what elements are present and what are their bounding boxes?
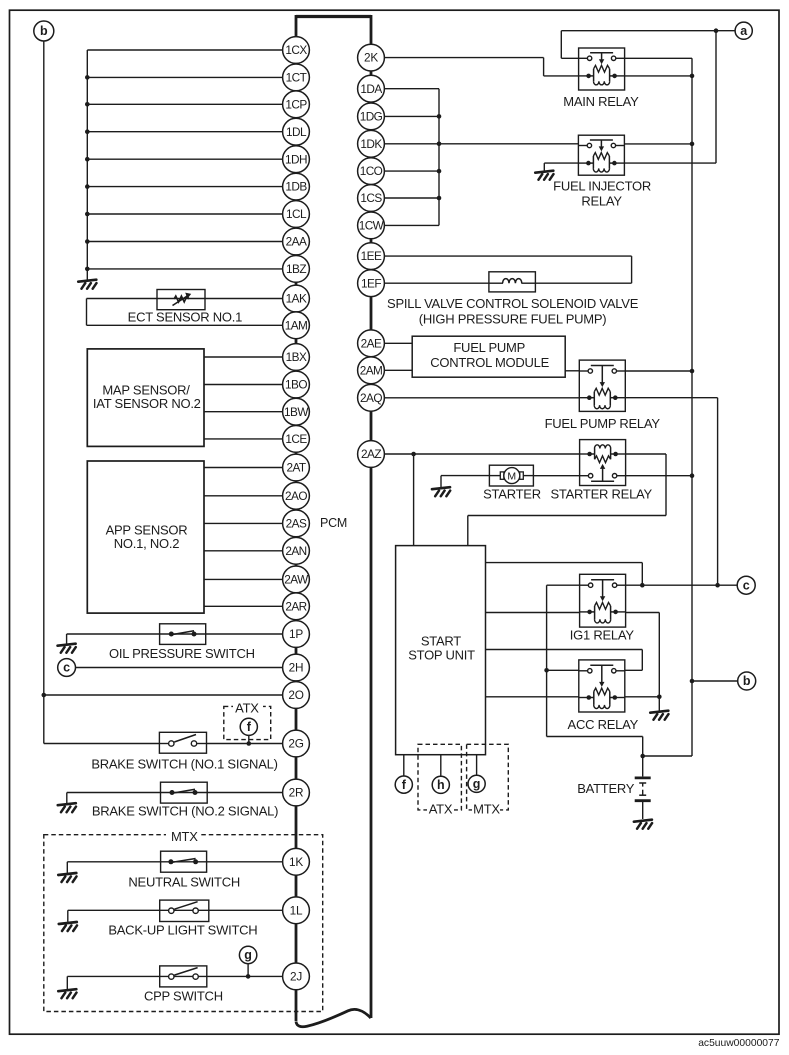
PCM pin 2AR (283, 593, 310, 620)
CPP switch (open) (160, 966, 207, 987)
wire 2H to connector c (76, 667, 283, 669)
PCM pin 1EF (358, 270, 385, 297)
wire ACC relay contact tap (547, 669, 579, 671)
wire 1P to oil pressure switch and ground (67, 634, 283, 644)
brake switch no.2 (closed) (161, 782, 208, 803)
wire IG1 relay coil to ground line (626, 613, 662, 711)
wire start stop unit to ACC relay coil (486, 696, 579, 698)
svg-text:CONTROL MODULE: CONTROL MODULE (430, 355, 549, 370)
ATX dashed box under start stop unit (418, 744, 461, 819)
PCM pin 1P (283, 621, 310, 648)
wire 2AT to APP sensor (204, 467, 283, 469)
PCM pin 2R (283, 779, 310, 806)
wire 2AR to APP sensor (204, 605, 283, 607)
wire ground bus vertical (86, 50, 88, 271)
svg-text:2AR: 2AR (285, 599, 306, 613)
svg-text:(HIGH PRESSURE FUEL PUMP): (HIGH PRESSURE FUEL PUMP) (419, 312, 607, 327)
svg-text:2AQ: 2AQ (360, 391, 382, 405)
connector h under start stop unit (432, 755, 449, 794)
label MAIN RELAY (563, 94, 639, 109)
ATX dashed box at 2G (224, 701, 271, 740)
wire fuel pump relay coil to c-line (625, 398, 720, 588)
label BRAKE SWITCH (NO.1 SIGNAL) (91, 757, 277, 772)
svg-text:FUEL INJECTOR: FUEL INJECTOR (553, 179, 651, 194)
label NEUTRAL SWITCH (128, 875, 240, 890)
svg-text:g: g (244, 948, 252, 962)
PCM pin 1DK (358, 130, 385, 157)
wire 1DB to ground bus (85, 184, 283, 189)
svg-text:ECT SENSOR NO.1: ECT SENSOR NO.1 (128, 310, 243, 325)
spill valve control solenoid valve (489, 272, 536, 292)
label SPILL VALVE CONTROL SOLENOID VALVE (387, 296, 639, 327)
PCM pin 1CP (283, 91, 310, 118)
svg-text:1CW: 1CW (359, 219, 385, 233)
svg-text:1P: 1P (289, 627, 303, 641)
PCM pin 1BW (283, 398, 310, 425)
PCM pin 2H (283, 654, 310, 681)
label ECT SENSOR NO.1 (128, 310, 243, 325)
wire 1CL to ground bus (85, 212, 283, 217)
brake switch no.1 (open) (159, 732, 206, 753)
PCM pin 1DA (358, 75, 385, 102)
connector c (left) (58, 659, 76, 677)
wire starter relay coil to start stop unit (468, 454, 666, 546)
svg-text:RELAY: RELAY (581, 193, 622, 208)
start stop unit box (396, 546, 486, 755)
svg-text:2O: 2O (288, 688, 303, 702)
connector c (right) (737, 576, 755, 594)
MTX dashed box under start stop unit (467, 744, 509, 819)
wire 1DL to ground bus (85, 129, 283, 134)
wire IG1/ACC contact feed from battery (544, 585, 642, 756)
wire 1EE/1EF spill valve loop (384, 256, 631, 283)
svg-text:2AE: 2AE (361, 336, 382, 350)
wire fuel pump relay contact out (625, 370, 692, 372)
ground at CPP switch (58, 989, 76, 998)
PCM pin 1AM (283, 312, 310, 339)
PCM pin 2AA (283, 228, 310, 255)
connector g under start stop unit (468, 755, 485, 793)
MAP/IAT sensor box (87, 349, 204, 447)
svg-text:ac5uuw00000077: ac5uuw00000077 (698, 1038, 780, 1049)
svg-text:NO.1, NO.2: NO.1, NO.2 (114, 536, 179, 551)
PCM pin 2AE (358, 330, 385, 357)
svg-text:2AS: 2AS (286, 517, 307, 531)
svg-text:STARTER: STARTER (483, 486, 541, 501)
PCM pin 2K (358, 44, 385, 71)
svg-text:2H: 2H (289, 661, 304, 675)
wire starter relay contact to starter (533, 475, 579, 477)
wire start stop unit to IG1 relay coil (486, 612, 580, 614)
label ACC RELAY (568, 717, 639, 732)
connector f at 2G (240, 718, 257, 743)
PCM pin 1CO (358, 158, 385, 185)
svg-text:1CT: 1CT (286, 71, 307, 85)
wire 1CW to feed bus (384, 224, 439, 226)
ground at oil pressure switch (58, 644, 76, 653)
svg-text:2J: 2J (290, 970, 302, 984)
PCM pin 1DB (283, 173, 310, 200)
svg-text:1CE: 1CE (285, 432, 307, 446)
wire 2K to main relay coil (384, 58, 578, 76)
svg-text:1BZ: 1BZ (286, 262, 306, 276)
fuel pump control module box (412, 336, 565, 377)
IG1 relay (580, 574, 626, 627)
ground at back-up light switch (59, 922, 77, 931)
svg-text:1K: 1K (289, 855, 303, 869)
svg-text:a: a (740, 24, 748, 38)
svg-text:BRAKE SWITCH (NO.1 SIGNAL): BRAKE SWITCH (NO.1 SIGNAL) (91, 757, 277, 772)
svg-text:1DK: 1DK (360, 137, 382, 151)
wire start stop unit to IG1 relay contact (486, 563, 643, 586)
label OIL PRESSURE SWITCH (109, 646, 255, 661)
connector b (top-left) (34, 21, 54, 41)
wire 1CT to ground bus (85, 75, 283, 80)
wire IG1 relay contact to connector c (626, 583, 738, 588)
battery (635, 754, 651, 819)
PCM pin 2AZ (358, 441, 385, 468)
PCM pin 1DL (283, 118, 310, 145)
label IG1 RELAY (570, 628, 635, 643)
wire 1DK to fuel injector relay contact (384, 142, 578, 147)
svg-text:ACC RELAY: ACC RELAY (568, 717, 639, 732)
wire 1CE to MAP sensor (204, 438, 283, 440)
back-up light switch (open) (160, 900, 209, 921)
ground at brake switch no.2 (58, 803, 76, 812)
ECT sensor NO.1 thermistor (157, 290, 205, 310)
label STARTER RELAY (550, 486, 652, 501)
drawing id ac5uuw00000077 (698, 1038, 780, 1049)
svg-text:BACK-UP LIGHT SWITCH: BACK-UP LIGHT SWITCH (108, 922, 257, 937)
wire 2AN to APP sensor (204, 550, 283, 552)
wire 1CP to ground bus (85, 102, 283, 107)
svg-text:2AA: 2AA (286, 235, 307, 249)
svg-text:g: g (473, 777, 481, 791)
ground at IG1/ACC relay coils (650, 711, 668, 720)
svg-text:CPP SWITCH: CPP SWITCH (144, 988, 223, 1003)
svg-text:START: START (421, 634, 461, 649)
oil pressure switch (closed) (160, 624, 206, 645)
label FUEL PUMP RELAY (545, 416, 661, 431)
wire 2AQ to fuel pump relay coil (384, 397, 579, 399)
wire 2AW to APP sensor (204, 578, 283, 580)
PCM pin 1DG (358, 103, 385, 130)
label BRAKE SWITCH (NO.2 SIGNAL) (92, 803, 278, 818)
svg-text:OIL PRESSURE SWITCH: OIL PRESSURE SWITCH (109, 646, 255, 661)
wire fuel injector relay coil to ground (544, 163, 578, 170)
svg-text:FUEL PUMP RELAY: FUEL PUMP RELAY (545, 416, 661, 431)
PCM pin 2AW (283, 566, 310, 593)
PCM pin 1EE (358, 243, 385, 270)
svg-text:1AM: 1AM (285, 318, 308, 332)
label BACK-UP LIGHT SWITCH (108, 922, 257, 937)
starter motor (489, 465, 533, 486)
svg-text:1CS: 1CS (360, 191, 382, 205)
svg-text:c: c (743, 578, 750, 592)
wire battery feed vertical (643, 58, 695, 756)
svg-text:2K: 2K (364, 51, 378, 65)
wire neutral switch to 1K and ground (67, 862, 282, 873)
svg-text:2R: 2R (289, 786, 304, 800)
svg-text:STARTER RELAY: STARTER RELAY (550, 486, 652, 501)
svg-text:ATX: ATX (235, 701, 259, 716)
wire 1DG to feed bus (384, 114, 441, 119)
label FUEL INJECTOR RELAY (553, 179, 651, 209)
wire start stop unit to ACC relay contact (486, 650, 643, 671)
PCM pin 1DH (283, 146, 310, 173)
PCM pin 1CE (283, 426, 310, 453)
wire 1BZ to ground bus (85, 267, 283, 272)
ground at battery (634, 820, 652, 829)
PCM pin 1AK (283, 285, 310, 312)
svg-text:IAT SENSOR NO.2: IAT SENSOR NO.2 (93, 396, 201, 411)
wire 2AZ branch to start stop unit (413, 454, 415, 546)
wire 2AE to fuel pump control module (384, 342, 412, 344)
label BATTERY (577, 781, 635, 796)
svg-text:BATTERY: BATTERY (577, 781, 635, 796)
wire main relay contact out (625, 57, 692, 59)
PCM label (320, 516, 347, 530)
PCM pin 2AO (283, 482, 310, 509)
PCM pin 1BZ (283, 256, 310, 283)
svg-text:SPILL VALVE CONTROL SOLENOID V: SPILL VALVE CONTROL SOLENOID VALVE (387, 296, 639, 311)
svg-text:1BO: 1BO (285, 378, 307, 392)
svg-text:FUEL PUMP: FUEL PUMP (453, 340, 525, 355)
wire 2AA to ground bus (85, 239, 283, 244)
wire 1DH to ground bus (85, 157, 283, 162)
PCM pin 1CL (283, 201, 310, 228)
ground for sensor-return bus (78, 269, 96, 289)
wire 1BO to MAP sensor (204, 384, 283, 386)
PCM pin 2AQ (358, 384, 385, 411)
label STARTER (483, 486, 541, 501)
wire connector a feed (561, 28, 735, 58)
svg-text:1DB: 1DB (285, 180, 307, 194)
svg-text:1EE: 1EE (361, 249, 382, 263)
connector b (right) (738, 672, 756, 690)
wire 2AS to APP sensor (204, 522, 283, 524)
wire brake switch no.2 to 2R and ground (67, 793, 283, 804)
PCM pin 2AT (283, 454, 310, 481)
APP sensor box (87, 461, 204, 613)
svg-text:h: h (437, 778, 445, 792)
wire connector b feed line (42, 41, 47, 744)
PCM pin 1CW (358, 212, 385, 239)
wire 1BX to MAP sensor (204, 356, 283, 358)
wire 1CS to feed bus (384, 196, 441, 201)
PCM pin 1BO (283, 371, 310, 398)
svg-text:c: c (63, 661, 70, 675)
fuel injector relay (578, 135, 624, 175)
wire fuel injector relay contact out (624, 143, 692, 145)
wire fuel pump control module to fuel pump relay contact (565, 370, 579, 372)
svg-text:M: M (507, 470, 516, 482)
svg-text:MAIN RELAY: MAIN RELAY (563, 94, 639, 109)
PCM pin 1K (283, 848, 310, 875)
wire starter to ground (441, 476, 489, 487)
svg-text:IG1 RELAY: IG1 RELAY (570, 628, 635, 643)
fuel pump relay (579, 360, 625, 411)
starter relay (coil on top) (580, 440, 626, 486)
wire 2O to b line (44, 694, 283, 696)
PCM pin 2G (283, 730, 310, 757)
svg-text:1AK: 1AK (286, 292, 307, 306)
wire 1AK to ECT sensor loop (87, 299, 283, 326)
wire 1DA to feed bus (384, 88, 439, 90)
wire brake switch no.1 to 2G (44, 741, 283, 746)
neutral switch (closed) (161, 851, 207, 872)
wire fuel injector relay coil to a-line (624, 31, 716, 163)
PCM pin 1BX (283, 344, 310, 371)
svg-text:1CX: 1CX (285, 43, 307, 57)
PCM pin 2AS (283, 510, 310, 537)
PCM pin 2AM (358, 357, 385, 384)
svg-text:PCM: PCM (320, 516, 347, 530)
connector g at 2J (239, 946, 256, 976)
svg-text:2AO: 2AO (285, 489, 307, 503)
svg-text:1DA: 1DA (360, 82, 382, 96)
svg-text:2AN: 2AN (285, 544, 306, 558)
ground at starter (432, 487, 450, 496)
PCM pin 1CS (358, 185, 385, 212)
wire right feed bus 1DA-1CW (438, 89, 440, 226)
PCM pin 1CX (283, 37, 310, 64)
PCM connector body outline (296, 15, 371, 1027)
svg-text:NEUTRAL SWITCH: NEUTRAL SWITCH (128, 875, 240, 890)
PCM pin 2AN (283, 537, 310, 564)
connector f under start stop unit (395, 755, 412, 794)
ground at neutral switch (58, 873, 76, 882)
wire connector b (right) (692, 680, 738, 682)
wire 1BW to MAP sensor (204, 411, 283, 413)
svg-text:1CP: 1CP (285, 97, 307, 111)
wire 1CX to ground bus (87, 49, 282, 51)
svg-text:ATX: ATX (429, 802, 453, 817)
svg-text:b: b (40, 24, 48, 38)
svg-text:MTX: MTX (171, 829, 198, 844)
wire 2AZ to starter relay coil (384, 452, 579, 457)
connector a (735, 22, 752, 39)
MTX dashed box (44, 829, 323, 1012)
label CPP SWITCH (144, 988, 223, 1003)
svg-text:1L: 1L (290, 903, 303, 917)
svg-text:BRAKE SWITCH (NO.2 SIGNAL): BRAKE SWITCH (NO.2 SIGNAL) (92, 803, 278, 818)
wire CPP switch to 2J and ground (67, 974, 282, 989)
wire ACC relay coil to ground line (625, 696, 659, 698)
svg-text:1DL: 1DL (286, 125, 307, 139)
wire 1CO to feed bus (384, 169, 441, 174)
ACC relay (579, 660, 625, 712)
svg-text:2AM: 2AM (360, 363, 383, 377)
svg-text:2AZ: 2AZ (361, 447, 381, 461)
svg-text:MTX: MTX (473, 802, 500, 817)
svg-text:1BX: 1BX (286, 350, 307, 364)
svg-text:STOP UNIT: STOP UNIT (408, 648, 475, 663)
wire 2AM to fuel pump control module (384, 369, 412, 371)
svg-text:1EF: 1EF (361, 276, 381, 290)
svg-text:1DG: 1DG (360, 110, 383, 124)
PCM pin 2O (283, 682, 310, 709)
wire back-up light switch to 1L and ground (68, 910, 283, 922)
svg-text:1BW: 1BW (284, 405, 309, 419)
svg-text:1DH: 1DH (285, 152, 307, 166)
svg-text:1CL: 1CL (286, 207, 307, 221)
PCM pin 2J (283, 963, 310, 990)
PCM pin 1CT (283, 64, 310, 91)
svg-text:2G: 2G (288, 737, 303, 751)
wire 2AO to APP sensor (204, 495, 283, 497)
ground at fuel injector relay (535, 171, 553, 180)
svg-text:2AW: 2AW (284, 573, 309, 587)
wire starter relay contact out (626, 475, 693, 477)
wire main relay coil out (625, 75, 692, 77)
svg-text:b: b (743, 674, 751, 688)
PCM pin 1L (283, 897, 310, 924)
svg-text:2AT: 2AT (286, 461, 305, 475)
main relay (579, 48, 625, 90)
svg-text:1CO: 1CO (360, 164, 383, 178)
